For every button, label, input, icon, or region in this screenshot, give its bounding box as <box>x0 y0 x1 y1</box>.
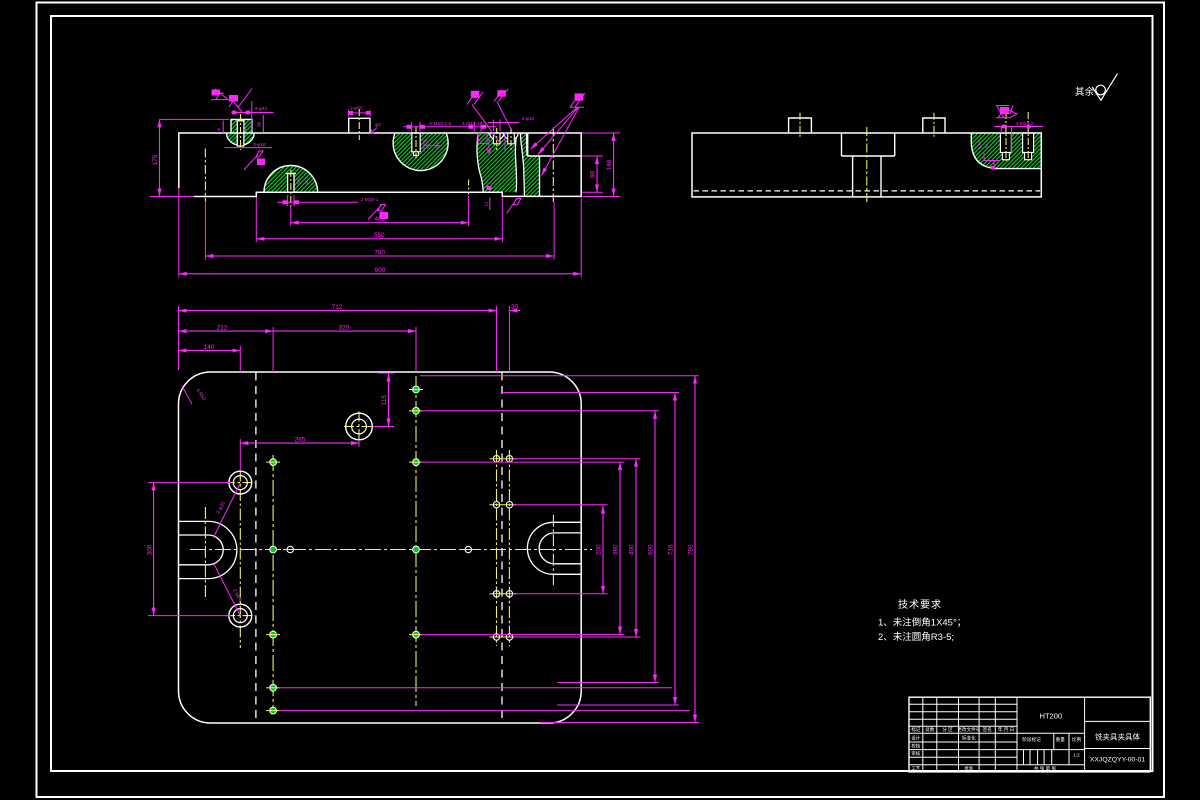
svg-text:900: 900 <box>375 267 386 274</box>
svg-text:300: 300 <box>146 544 153 555</box>
svg-text:780: 780 <box>374 249 385 256</box>
main body outline <box>179 133 581 197</box>
svg-text:20: 20 <box>511 304 519 311</box>
svg-text:阶段标记: 阶段标记 <box>1022 736 1041 743</box>
svg-text:716: 716 <box>668 544 675 555</box>
svg-text:处数: 处数 <box>925 726 935 733</box>
svg-text:比例: 比例 <box>1072 736 1082 743</box>
svg-text:分 区: 分 区 <box>942 726 953 733</box>
svg-text:φ17: φ17 <box>984 140 990 149</box>
svg-text:签名: 签名 <box>983 726 992 733</box>
dim 900 <box>179 273 581 275</box>
green hole dots <box>270 386 420 714</box>
svg-text:重量: 重量 <box>1056 736 1066 743</box>
title block lines <box>909 697 1150 772</box>
section line dashed right <box>501 373 503 723</box>
svg-text:共 张 第 张: 共 张 第 张 <box>1034 765 1057 772</box>
dim 140 right <box>582 132 620 134</box>
svg-text:265: 265 <box>295 436 306 443</box>
svg-text:400: 400 <box>629 544 636 555</box>
centerline boss A <box>799 113 801 138</box>
small white circles <box>287 456 513 641</box>
svg-text:175: 175 <box>152 154 159 165</box>
centerline vertical x416 <box>415 376 417 706</box>
leader 2-phi26 <box>214 483 241 538</box>
dim 780 right <box>694 376 696 723</box>
left U-notch outer <box>179 521 237 578</box>
finish mark under 2-M16 <box>368 205 386 220</box>
svg-text:380: 380 <box>613 544 620 555</box>
locator circle top <box>229 471 252 494</box>
svg-text:140: 140 <box>606 159 613 170</box>
svg-text:φ22: φ22 <box>304 176 310 185</box>
label 3-phi42 boss B1 <box>251 101 253 131</box>
dim 780 <box>205 255 554 257</box>
cross ticks circle column <box>226 482 255 484</box>
svg-text:技术要求: 技术要求 <box>898 598 942 611</box>
plate outline rounded rect <box>179 372 582 723</box>
centerline hole 4M12 a <box>496 128 498 152</box>
vertical micro dim 38 <box>262 115 264 133</box>
centerline boss B1 <box>240 114 242 150</box>
right U-notch outer <box>527 522 581 574</box>
label 3-phi18 below boss B1 <box>225 147 273 149</box>
dim 212 <box>179 330 274 332</box>
svg-text:4-M24-2: 4-M24-2 <box>1016 121 1034 127</box>
svg-text:212: 212 <box>217 324 228 331</box>
hatched corner block <box>971 133 1041 169</box>
finish triangle at bottom edge <box>507 199 522 214</box>
hatched web left lobe <box>477 133 517 192</box>
boss B2 drilled slot <box>288 174 294 193</box>
dim 90 right <box>582 155 603 157</box>
svg-text:φ0: φ0 <box>477 138 483 144</box>
centerline right notch vertical <box>552 515 554 587</box>
hatched large counterbore pocket <box>393 133 448 171</box>
svg-text:其余: 其余 <box>1075 86 1095 98</box>
dim 115 <box>373 426 394 428</box>
svg-text:4-φ12: 4-φ12 <box>522 116 535 122</box>
svg-text:712: 712 <box>332 304 343 311</box>
dim 200 right <box>602 506 604 594</box>
svg-text:HT200: HT200 <box>1040 712 1063 721</box>
svg-text:5: 5 <box>218 127 221 133</box>
dim 400 right <box>635 459 637 637</box>
middle block lower <box>852 156 854 197</box>
svg-text:标记: 标记 <box>911 726 921 733</box>
centerline boss B <box>933 113 935 138</box>
svg-text:140: 140 <box>204 344 215 351</box>
title block frame <box>909 697 1150 772</box>
finish mark under 3-phi18 <box>244 155 258 171</box>
leader 2-M24 <box>214 564 240 616</box>
centerline vertical x273 <box>272 455 274 714</box>
svg-text:φ26: φ26 <box>977 140 983 149</box>
centerline boss B3 <box>358 109 360 140</box>
left U-notch inner <box>179 535 224 565</box>
micro dim 11 bottom right <box>489 198 491 211</box>
svg-text:1、未注倒角1X45°；: 1、未注倒角1X45°； <box>878 617 966 629</box>
centerline horizontal main <box>190 549 592 551</box>
svg-text:320: 320 <box>339 324 350 331</box>
label 2-M16-1 flange boss <box>287 195 289 206</box>
svg-text:2-φ50: 2-φ50 <box>350 106 363 112</box>
locator circle bottom <box>229 604 252 627</box>
centerline middle <box>866 127 868 205</box>
bolt slot 2 <box>1023 133 1034 153</box>
centerline bottom hole right <box>468 180 470 195</box>
main outline side view <box>692 133 1041 197</box>
finish symbol side <box>1000 107 1009 114</box>
centerline vertical x509 <box>508 450 510 646</box>
svg-text:3-φ18: 3-φ18 <box>253 142 266 148</box>
boss3 circle plan <box>346 413 373 440</box>
boss B <box>923 118 945 133</box>
label 2-phi50 boss B3 <box>348 110 350 117</box>
boss A <box>789 118 812 133</box>
svg-text:φ30: φ30 <box>296 176 302 185</box>
centerline left notch vertical <box>204 507 206 598</box>
centerline left notch <box>204 149 206 202</box>
dim 380 right <box>619 462 621 634</box>
dim 140 plan <box>179 350 241 352</box>
centerline cross boss3 <box>344 426 374 428</box>
svg-text:审核: 审核 <box>911 750 921 757</box>
svg-text:780: 780 <box>688 544 695 555</box>
svg-text:XXJQZQYY-00-01: XXJQZQYY-00-01 <box>1090 757 1146 764</box>
right U-notch inner <box>539 533 581 564</box>
svg-text:6-M20-1.5: 6-M20-1.5 <box>429 121 451 127</box>
svg-text:标准化: 标准化 <box>962 735 976 742</box>
right side extension lines <box>279 376 699 723</box>
svg-text:90: 90 <box>590 170 597 178</box>
svg-text:550: 550 <box>374 232 385 239</box>
svg-text:φ2: φ2 <box>375 122 381 128</box>
top-right pocket lines <box>528 133 582 156</box>
svg-text:115: 115 <box>381 394 388 405</box>
dim 716 right <box>674 393 676 706</box>
svg-text:2-M16-1: 2-M16-1 <box>361 197 379 203</box>
svg-text:38: 38 <box>257 122 263 128</box>
section line dashed left <box>255 373 257 723</box>
label 4-phi12 <box>492 120 494 132</box>
svg-text:设计: 设计 <box>911 735 921 742</box>
step line right of web <box>539 156 541 196</box>
small counterbore arcs at top (4-M12 holes) <box>490 133 504 140</box>
dim 400 <box>291 222 469 224</box>
centerline right slot <box>552 128 554 203</box>
yellow dot ticks <box>266 390 516 711</box>
hatched web right lobe <box>520 133 539 196</box>
svg-text:11: 11 <box>483 201 489 206</box>
finish symbol fan right <box>575 94 584 101</box>
centerline circles column x240 <box>239 470 241 649</box>
svg-text:铣夹具夹具体: 铣夹具夹具体 <box>1095 732 1140 742</box>
svg-text:工艺: 工艺 <box>911 766 921 771</box>
finish marks above boss B1 <box>212 90 221 96</box>
dim 320 <box>273 330 416 332</box>
svg-text:2、未注圆角R3-5;: 2、未注圆角R3-5; <box>878 631 954 643</box>
centerline boss B2 <box>290 170 292 207</box>
centerline vertical x496 <box>496 450 498 646</box>
extension lines bottom dims <box>178 189 180 278</box>
top extension lines <box>178 306 180 370</box>
svg-text:φ20: φ20 <box>242 122 248 131</box>
svg-text:校核: 校核 <box>911 743 921 750</box>
svg-text:φ20: φ20 <box>425 140 431 149</box>
micro arrows near 4M12 slots <box>487 139 492 153</box>
hatched boss B1 pocket <box>227 119 255 145</box>
dim 600 right <box>654 411 656 683</box>
svg-text:年.月.日: 年.月.日 <box>998 726 1014 733</box>
svg-text:1:2: 1:2 <box>1073 753 1080 758</box>
hatched boss B2 dome on flange <box>264 165 318 192</box>
centerline slot 1 <box>1005 112 1007 161</box>
dim 300 left <box>148 482 231 484</box>
centerline pocket <box>415 127 417 159</box>
dim line M20/M12 group <box>411 122 413 132</box>
dim 175 left <box>159 119 161 196</box>
svg-text:φ40: φ40 <box>435 140 441 149</box>
dim 265 <box>239 439 241 471</box>
centerline slot 2 <box>1027 112 1029 161</box>
hidden dashed line <box>694 190 1041 192</box>
dim 550 <box>256 238 502 240</box>
finish symbols top middle <box>471 91 480 98</box>
svg-text:更改文件号: 更改文件号 <box>957 726 980 733</box>
pocket slot M20 <box>412 133 420 152</box>
dim 4-M24-2 <box>1000 127 1002 134</box>
boss B3 (phi50) <box>349 118 370 133</box>
svg-text:600: 600 <box>648 544 655 555</box>
middle block upper <box>842 133 895 156</box>
svg-text:批准: 批准 <box>964 765 974 772</box>
boss B1 drilled slot <box>237 121 244 146</box>
dim 20 <box>509 310 520 312</box>
svg-text:3-φ42: 3-φ42 <box>255 106 268 112</box>
centerline hole 4M12 b <box>510 128 512 152</box>
dim 712 <box>179 310 497 312</box>
svg-text:4-M12-1: 4-M12-1 <box>462 121 480 127</box>
bolt slot 1 <box>1000 133 1011 153</box>
svg-text:200: 200 <box>596 544 603 555</box>
